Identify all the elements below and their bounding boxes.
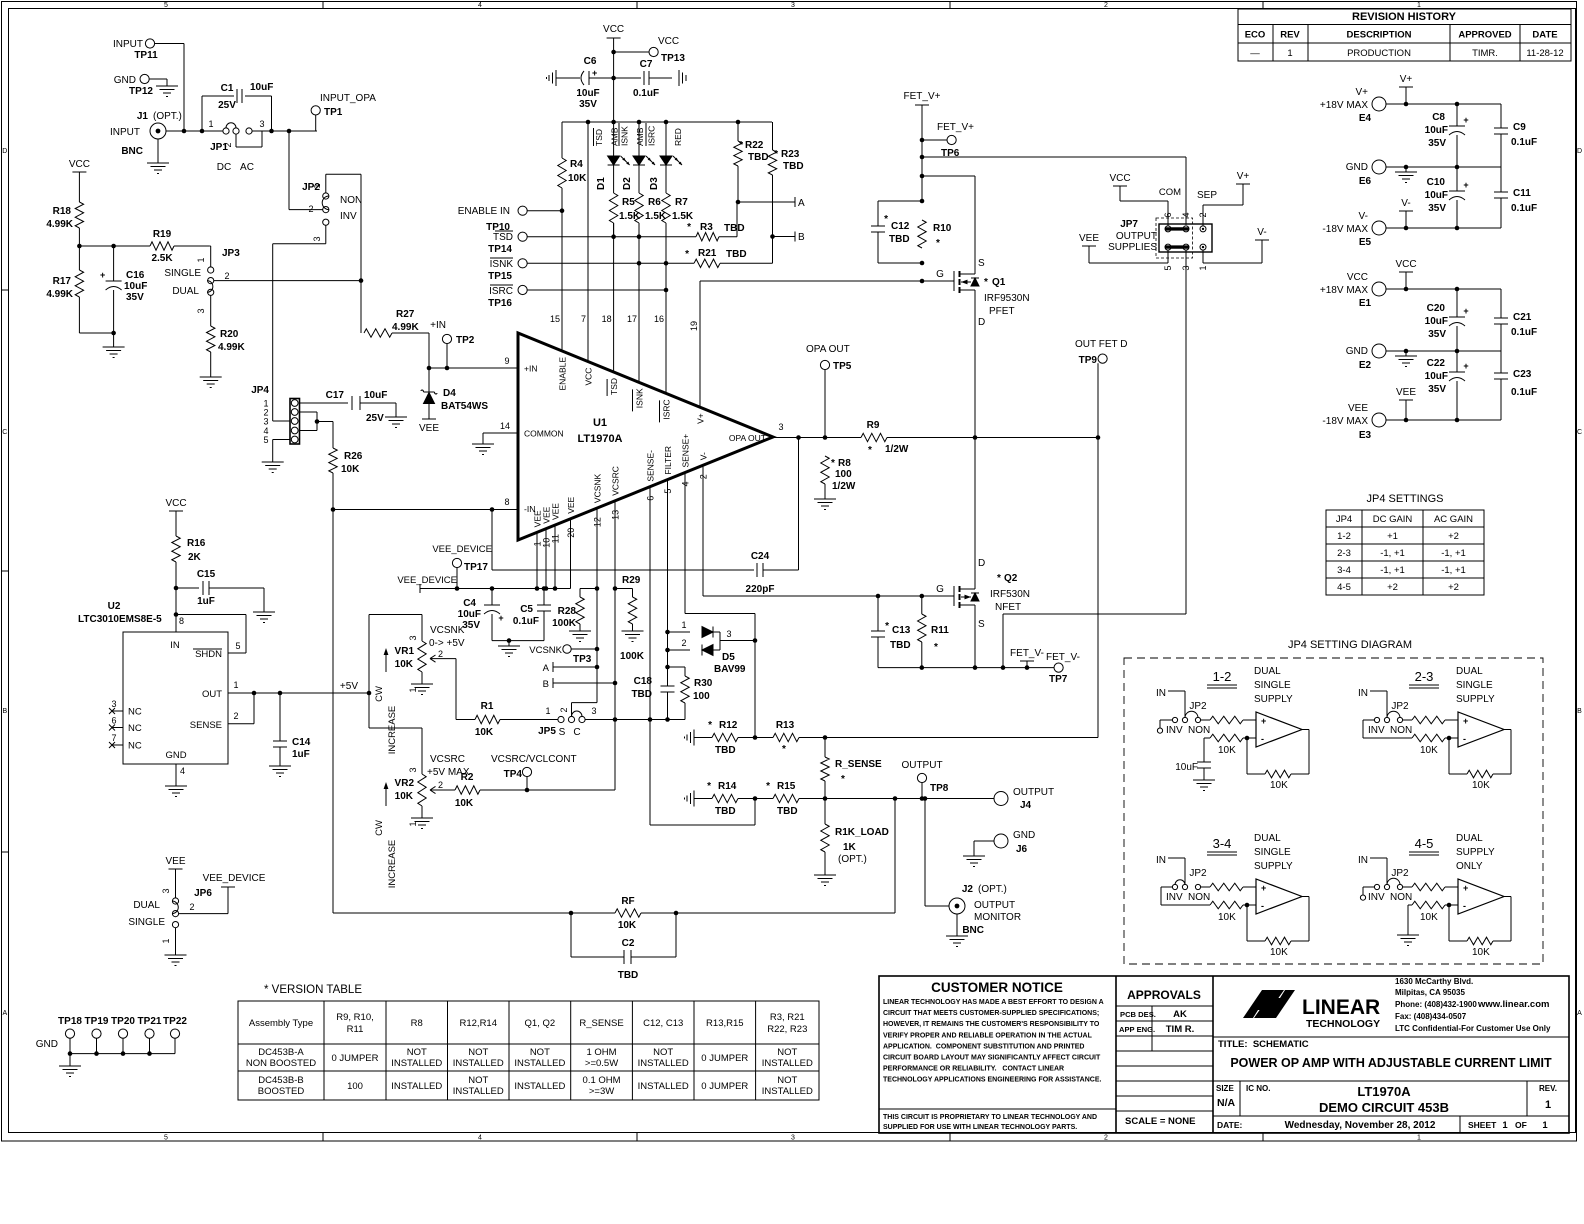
svg-text:TBD: TBD xyxy=(777,806,798,817)
svg-text:R9, R10,: R9, R10, xyxy=(336,1012,374,1023)
ground at VR2 xyxy=(421,806,423,818)
svg-text:35V: 35V xyxy=(462,620,480,631)
svg-text:10K: 10K xyxy=(395,791,414,802)
svg-text:REV.: REV. xyxy=(1539,1084,1557,1093)
svg-text:E1: E1 xyxy=(1359,298,1372,309)
diode D5 BAV99 xyxy=(668,631,691,633)
svg-text:VEE: VEE xyxy=(1396,387,1416,398)
svg-text:4: 4 xyxy=(180,766,185,776)
svg-text:NOT: NOT xyxy=(530,1047,550,1058)
svg-text:VCSRC: VCSRC xyxy=(430,754,465,765)
svg-text:R8: R8 xyxy=(838,458,851,469)
ground at C15 xyxy=(263,588,265,612)
power VEE at D4 xyxy=(422,418,436,420)
ground at C16 xyxy=(113,333,115,347)
svg-text:TP3: TP3 xyxy=(573,654,592,665)
svg-text:FET_V+: FET_V+ xyxy=(904,91,941,102)
JP4 diagram 4-5 input resistor 10K xyxy=(1403,886,1412,888)
svg-text:1: 1 xyxy=(233,680,238,690)
potentiometer VR1 10K xyxy=(368,615,370,694)
svg-text:1: 1 xyxy=(1502,1120,1508,1131)
svg-text:-18V MAX: -18V MAX xyxy=(1322,416,1368,427)
JP4 diagram 3-4 feedback resistor 10K xyxy=(1246,905,1248,941)
svg-text:19: 19 xyxy=(689,321,699,331)
svg-text:VCSNK: VCSNK xyxy=(529,645,562,656)
svg-text:TBD: TBD xyxy=(889,234,910,245)
svg-text:—: — xyxy=(1250,48,1260,59)
svg-text:IN: IN xyxy=(1358,855,1368,866)
svg-text:BAV99: BAV99 xyxy=(714,664,746,675)
wire OPA OUT row xyxy=(773,437,861,439)
svg-text:JP4: JP4 xyxy=(1336,514,1352,525)
svg-text:-1, +1: -1, +1 xyxy=(1441,565,1466,576)
svg-text:2: 2 xyxy=(681,638,686,648)
svg-text:TP17: TP17 xyxy=(464,562,488,573)
svg-text:7: 7 xyxy=(581,314,586,324)
svg-text:Phone: (408)432-1900: Phone: (408)432-1900 xyxy=(1395,1000,1477,1009)
svg-text:10uF: 10uF xyxy=(1425,371,1448,382)
LED D2 ISNK xyxy=(638,122,640,156)
net flag A xyxy=(738,201,795,203)
svg-text:R13,R15: R13,R15 xyxy=(706,1018,744,1029)
terminal E3 VEE -18V MAX xyxy=(1372,413,1386,427)
svg-text:DEMO CIRCUIT 453B: DEMO CIRCUIT 453B xyxy=(1319,1100,1449,1115)
svg-text:OPA OUT: OPA OUT xyxy=(729,433,766,443)
resistor R4 10K xyxy=(561,122,563,158)
svg-text:ISNK: ISNK xyxy=(635,388,645,408)
wire feedback to output node xyxy=(894,799,896,914)
svg-text:1: 1 xyxy=(1198,265,1208,270)
svg-text:10K: 10K xyxy=(1420,912,1438,923)
svg-text:4.99K: 4.99K xyxy=(392,322,419,333)
svg-text:*: * xyxy=(774,149,778,160)
svg-text:4.99K: 4.99K xyxy=(218,342,245,353)
svg-text:SINGLE: SINGLE xyxy=(128,917,165,928)
svg-text:1 OHM: 1 OHM xyxy=(587,1047,617,1058)
capacitor C21 0.1uF xyxy=(1500,289,1502,318)
svg-text:35V: 35V xyxy=(1428,203,1446,214)
svg-text:OUT: OUT xyxy=(202,689,222,700)
svg-text:+2: +2 xyxy=(1448,582,1459,593)
svg-text:DC GAIN: DC GAIN xyxy=(1373,514,1413,525)
svg-text:4-5: 4-5 xyxy=(1415,836,1434,851)
svg-text:C7: C7 xyxy=(640,59,653,70)
svg-text:2: 2 xyxy=(438,649,443,659)
svg-text:NOT: NOT xyxy=(407,1047,427,1058)
svg-text:100K: 100K xyxy=(620,651,645,662)
svg-text:SINGLE: SINGLE xyxy=(1254,680,1291,691)
svg-text:10uF: 10uF xyxy=(1175,762,1198,773)
svg-text:SUPPLY: SUPPLY xyxy=(1456,694,1495,705)
wire TP ground bus xyxy=(70,1053,175,1055)
svg-text:INV: INV xyxy=(340,211,357,222)
svg-text:J1: J1 xyxy=(137,111,149,122)
svg-text:C13: C13 xyxy=(892,625,911,636)
svg-text:B: B xyxy=(798,232,805,243)
svg-text:IN: IN xyxy=(170,640,180,651)
svg-text:10K: 10K xyxy=(455,798,474,809)
svg-text:JP4 SETTINGS: JP4 SETTINGS xyxy=(1366,493,1443,505)
svg-text:+: + xyxy=(592,68,597,78)
resistor R22 TBD xyxy=(737,122,739,141)
svg-text:R1: R1 xyxy=(481,701,494,712)
svg-text:S: S xyxy=(978,258,985,269)
connector J4 OUTPUT xyxy=(994,792,1008,806)
ground at J1 xyxy=(157,139,159,163)
svg-text:-18V MAX: -18V MAX xyxy=(1322,224,1368,235)
resistor R7 1.5K xyxy=(662,193,670,223)
JP4 diagram 1-2 inverting resistor 10K xyxy=(1210,734,1243,742)
svg-text:R11: R11 xyxy=(931,625,949,636)
svg-text:INCREASE: INCREASE xyxy=(387,706,398,755)
svg-text:100: 100 xyxy=(835,469,852,480)
svg-text:NOT: NOT xyxy=(468,1047,488,1058)
svg-text:R4: R4 xyxy=(570,159,583,170)
svg-text:5: 5 xyxy=(164,1135,168,1142)
svg-text:OF: OF xyxy=(1515,1120,1527,1130)
wire U1 pin12 VCSNK column xyxy=(596,508,598,703)
ground at COMMON xyxy=(472,443,494,445)
svg-text:JP7: JP7 xyxy=(1120,219,1138,230)
svg-text:4: 4 xyxy=(1181,212,1191,217)
capacitor C16 10uF 35V xyxy=(113,246,115,281)
svg-text:THIS CIRCUIT IS PROPRIETARY TO: THIS CIRCUIT IS PROPRIETARY TO LINEAR TE… xyxy=(883,1114,1097,1121)
svg-text:* VERSION TABLE: * VERSION TABLE xyxy=(264,984,362,996)
svg-text:C23: C23 xyxy=(1513,369,1532,380)
svg-text:*: * xyxy=(739,140,743,151)
svg-text:V+: V+ xyxy=(1400,74,1413,85)
svg-text:AK: AK xyxy=(1173,1009,1187,1020)
svg-text:OUT FET D: OUT FET D xyxy=(1075,339,1127,350)
svg-text:2: 2 xyxy=(223,142,233,147)
JP4 diagram 4-5 ground on inverting resistor xyxy=(1408,904,1412,906)
svg-text:C4: C4 xyxy=(463,598,476,609)
svg-text:PERFORMANCE OR RELIABILITY.: PERFORMANCE OR RELIABILITY. CONTACT LINE… xyxy=(883,1066,1064,1073)
svg-text:OPA OUT: OPA OUT xyxy=(806,344,850,355)
svg-text:0.1uF: 0.1uF xyxy=(513,616,539,627)
JP4 diagram 4-5 op amp xyxy=(1458,879,1504,914)
terminal E1 VCC +18V MAX xyxy=(1372,282,1386,296)
svg-text:ISNK: ISNK xyxy=(619,126,629,146)
JP4 diagram 4-5 inverting resistor 10K xyxy=(1412,901,1445,909)
svg-text:SCALE = NONE: SCALE = NONE xyxy=(1125,1116,1195,1127)
svg-text:D1: D1 xyxy=(596,177,607,190)
svg-text:25V: 25V xyxy=(366,413,384,424)
svg-text:Q1: Q1 xyxy=(992,277,1006,288)
wire U1 pin18 TSD column xyxy=(613,223,615,372)
svg-text:4: 4 xyxy=(478,2,482,9)
svg-text:IN: IN xyxy=(1156,855,1166,866)
capacitor C6 10uF 35V xyxy=(555,70,557,86)
wire TP1 stem xyxy=(315,115,317,131)
svg-text:3: 3 xyxy=(408,635,418,640)
resistor R30 100 xyxy=(668,666,686,668)
ground at U2 xyxy=(165,785,187,787)
svg-text:DESCRIPTION: DESCRIPTION xyxy=(1347,30,1412,41)
ground at VR1 xyxy=(421,672,423,684)
svg-text:R27: R27 xyxy=(396,309,415,320)
svg-text:0.1uF: 0.1uF xyxy=(1511,327,1537,338)
svg-text:TP15: TP15 xyxy=(488,271,512,282)
svg-text:18: 18 xyxy=(602,314,612,324)
svg-text:SEP: SEP xyxy=(1197,190,1217,201)
svg-text:2: 2 xyxy=(438,780,443,790)
svg-text:R3: R3 xyxy=(700,222,713,233)
svg-text:C21: C21 xyxy=(1513,312,1532,323)
wire U1 pin19 V+ to Q1 gate row xyxy=(699,281,701,407)
svg-text:R18: R18 xyxy=(53,206,72,217)
svg-text:TP19: TP19 xyxy=(85,1016,109,1027)
JP4 diagram 2-3 INV loop wire xyxy=(1363,719,1374,721)
svg-text:2: 2 xyxy=(189,902,194,912)
svg-text:(OPT.): (OPT.) xyxy=(978,884,1007,895)
svg-text:8: 8 xyxy=(179,616,184,626)
svg-text:SIZE: SIZE xyxy=(1216,1084,1234,1093)
svg-text:SUPPLY: SUPPLY xyxy=(1456,847,1495,858)
svg-text:0.1uF: 0.1uF xyxy=(633,88,659,99)
svg-text:4-5: 4-5 xyxy=(1337,582,1351,593)
resistor R9 1/2W xyxy=(861,433,887,441)
svg-text:5: 5 xyxy=(235,641,240,651)
svg-text:0 JUMPER: 0 JUMPER xyxy=(332,1053,379,1064)
svg-text:LINEAR TECHNOLOGY HAS MADE A B: LINEAR TECHNOLOGY HAS MADE A BEST EFFORT… xyxy=(883,999,1104,1006)
svg-text:NC: NC xyxy=(128,723,142,734)
svg-text:TSD: TSD xyxy=(493,232,513,243)
wire JP2 pin3 to JP4 pin3 xyxy=(325,225,327,243)
svg-text:C17: C17 xyxy=(326,390,345,401)
svg-text:1: 1 xyxy=(681,620,686,630)
svg-text:VEE: VEE xyxy=(419,423,439,434)
svg-text:R28: R28 xyxy=(558,606,577,617)
svg-text:C15: C15 xyxy=(197,569,216,580)
svg-text:Wednesday, November 28, 2012: Wednesday, November 28, 2012 xyxy=(1285,1120,1436,1131)
svg-text:3: 3 xyxy=(591,706,596,716)
svg-text:FET_V+: FET_V+ xyxy=(937,122,974,133)
svg-text:VCSRC: VCSRC xyxy=(611,466,621,496)
svg-text:ONLY: ONLY xyxy=(1456,861,1483,872)
svg-text:3: 3 xyxy=(408,767,418,772)
wire Q2 source to FET_V- row xyxy=(974,616,976,668)
svg-text:+: + xyxy=(1261,716,1266,726)
svg-text:TBD: TBD xyxy=(631,689,652,700)
svg-text:INSTALLED: INSTALLED xyxy=(453,1086,504,1097)
wire JP7 pin3 to FET_V- row xyxy=(1185,249,1187,614)
svg-text:TSD: TSD xyxy=(594,129,604,146)
svg-text:OUTPUT: OUTPUT xyxy=(1013,787,1054,798)
svg-text:INSTALLED: INSTALLED xyxy=(638,1058,689,1069)
wire R26 to feedback node xyxy=(332,473,334,913)
svg-text:A: A xyxy=(2,1010,7,1017)
svg-text:*: * xyxy=(782,744,786,755)
svg-text:1K: 1K xyxy=(843,842,857,853)
JP4 diagram 1-2 INV open stub xyxy=(1160,719,1172,721)
svg-text:J2: J2 xyxy=(962,884,974,895)
svg-text:1: 1 xyxy=(1542,1120,1548,1131)
wire E4 row xyxy=(1386,103,1501,105)
svg-text:NON: NON xyxy=(340,195,362,206)
svg-text:VCSNK: VCSNK xyxy=(430,625,465,636)
svg-text:R_SENSE: R_SENSE xyxy=(579,1018,623,1029)
wire U1 pin2 V- to Q2 gate row xyxy=(702,465,704,596)
svg-text:0 JUMPER: 0 JUMPER xyxy=(701,1053,748,1064)
svg-text:Q1, Q2: Q1, Q2 xyxy=(525,1018,556,1029)
svg-text:TBD: TBD xyxy=(724,223,745,234)
svg-text:+2: +2 xyxy=(1387,582,1398,593)
resistor RF 10K (feedback) xyxy=(333,912,615,914)
svg-text:B: B xyxy=(2,708,7,715)
ground at TP bus xyxy=(59,1065,81,1067)
JP4 diagram 4-5 feedback resistor 10K xyxy=(1448,905,1450,941)
svg-text:TBD: TBD xyxy=(748,152,769,163)
wire Q2 drain to output row xyxy=(974,438,976,579)
wire JP4 pin2/pin4 tie to R26 xyxy=(300,411,318,413)
svg-text:R30: R30 xyxy=(694,678,713,689)
svg-text:NOT: NOT xyxy=(653,1047,673,1058)
wire TP10 to R4 xyxy=(527,210,562,212)
svg-text:LTC Confidential-For Customer: LTC Confidential-For Customer Use Only xyxy=(1395,1024,1551,1033)
svg-text:3: 3 xyxy=(263,417,268,427)
svg-text:GND: GND xyxy=(165,750,186,761)
svg-text:JP3: JP3 xyxy=(222,248,240,259)
svg-text:POWER OP AMP WITH ADJUSTABLE C: POWER OP AMP WITH ADJUSTABLE CURRENT LIM… xyxy=(1230,1056,1552,1070)
svg-text:DUAL: DUAL xyxy=(1254,833,1281,844)
JP4 diagram 3-4 INV loop wire xyxy=(1161,886,1172,888)
wire Q1 drain to output row xyxy=(974,300,976,438)
svg-text:AC: AC xyxy=(240,162,254,173)
svg-text:*: * xyxy=(831,458,835,469)
svg-text:NOT: NOT xyxy=(777,1075,797,1086)
svg-text:TP2: TP2 xyxy=(456,335,475,346)
svg-text:SUPPLY: SUPPLY xyxy=(1254,861,1293,872)
wire feedback node to -IN xyxy=(333,509,518,511)
svg-text:JP2: JP2 xyxy=(1189,701,1207,712)
svg-text:LTC3010EMS8E-5: LTC3010EMS8E-5 xyxy=(78,614,162,625)
svg-text:FILTER: FILTER xyxy=(663,446,673,475)
svg-text:SENSE+: SENSE+ xyxy=(681,434,691,468)
wire E6 row xyxy=(1386,166,1501,168)
svg-text:V-: V- xyxy=(1257,227,1266,238)
svg-text:NON: NON xyxy=(1390,725,1412,736)
svg-text:S: S xyxy=(978,619,985,630)
test point TP6 FET_V+ xyxy=(920,138,925,143)
connector J6 GND xyxy=(994,834,1008,848)
svg-text:INSTALLED: INSTALLED xyxy=(514,1058,565,1069)
svg-text:MONITOR: MONITOR xyxy=(974,912,1021,923)
svg-text:+: + xyxy=(1463,306,1468,316)
svg-text:VCC: VCC xyxy=(603,24,624,35)
svg-text:R14: R14 xyxy=(718,781,737,792)
svg-text:INSTALLED: INSTALLED xyxy=(762,1058,813,1069)
svg-text:RED: RED xyxy=(673,128,683,146)
svg-text:10K: 10K xyxy=(618,920,637,931)
svg-text:E2: E2 xyxy=(1359,360,1372,371)
wire Q1 gate node xyxy=(920,279,925,284)
svg-text:10uF: 10uF xyxy=(124,281,147,292)
svg-text:(OPT.): (OPT.) xyxy=(153,111,182,122)
svg-text:TP13: TP13 xyxy=(661,53,685,64)
wire E2 row xyxy=(1386,350,1501,352)
svg-text:C1: C1 xyxy=(221,83,234,94)
wire TSD row xyxy=(527,236,696,238)
svg-text:VR2: VR2 xyxy=(395,778,415,789)
svg-text:R21: R21 xyxy=(698,248,717,259)
resistor R10 xyxy=(918,220,926,248)
svg-text:PRODUCTION: PRODUCTION xyxy=(1347,48,1411,59)
svg-text:R1K_LOAD: R1K_LOAD xyxy=(835,827,889,838)
ground at R29 xyxy=(632,624,634,631)
svg-text:INPUT: INPUT xyxy=(110,127,140,138)
svg-text:3: 3 xyxy=(259,119,264,129)
wire JP3 pin3 to R20 xyxy=(210,295,212,326)
svg-text:1uF: 1uF xyxy=(197,596,215,607)
svg-text:0.1uF: 0.1uF xyxy=(1511,137,1537,148)
wire U1 COMMON to ground xyxy=(483,432,518,434)
title rows xyxy=(1213,1036,1569,1038)
svg-text:C8: C8 xyxy=(1432,112,1445,123)
svg-text:4.99K: 4.99K xyxy=(46,289,73,300)
svg-text:TP12: TP12 xyxy=(129,86,153,97)
svg-text:OUTPUT: OUTPUT xyxy=(1116,231,1157,242)
svg-text:U2: U2 xyxy=(108,601,121,612)
capacitor C4 10uF 35V xyxy=(491,589,493,606)
svg-text:R29: R29 xyxy=(622,575,641,586)
revision history table xyxy=(1238,9,1571,61)
wire U1 VEE pins to VEE_DEVICE bus xyxy=(536,532,538,588)
svg-text:GND: GND xyxy=(1013,830,1035,841)
svg-text:TP4: TP4 xyxy=(504,769,523,780)
svg-text:GND: GND xyxy=(1346,162,1368,173)
capacitor C10 10uF 35V xyxy=(1456,167,1458,191)
svg-text:S: S xyxy=(559,727,566,738)
resistor R16 2K xyxy=(172,536,180,562)
svg-text:1: 1 xyxy=(196,257,206,262)
capacitor C5 0.1uF xyxy=(543,589,545,606)
JP4 diagram 1-2 feedback resistor 10K xyxy=(1246,738,1248,774)
svg-text:6: 6 xyxy=(111,716,116,726)
wire J1 to JP1 xyxy=(166,130,223,132)
svg-text:INCREASE: INCREASE xyxy=(387,840,398,889)
svg-text:9: 9 xyxy=(504,356,509,366)
svg-text:INV: INV xyxy=(1368,892,1385,903)
svg-text:A: A xyxy=(543,663,550,674)
approvals box xyxy=(1212,976,1214,1133)
svg-text:CIRCUIT THAT MEETS CUSTOMER-SU: CIRCUIT THAT MEETS CUSTOMER-SUPPLIED SPE… xyxy=(883,1010,1099,1017)
JP4 diagram 1-2 op amp xyxy=(1256,712,1302,747)
wire U1 pin4 SENSE+ to D5 node xyxy=(684,473,686,614)
svg-text:TP21: TP21 xyxy=(138,1016,162,1027)
svg-text:-: - xyxy=(1463,901,1466,911)
svg-text:VEE: VEE xyxy=(1348,403,1368,414)
svg-text:SUPPLY: SUPPLY xyxy=(1254,694,1293,705)
resistor R18 4.99K xyxy=(75,202,83,228)
wire U2 GND pin xyxy=(175,764,177,786)
svg-text:FET_V-: FET_V- xyxy=(1010,648,1044,659)
svg-text:10uF: 10uF xyxy=(364,390,387,401)
wire D5 node to R12/R13 junction xyxy=(754,641,756,738)
svg-text:SENSE-: SENSE- xyxy=(646,450,656,482)
ground at R8 xyxy=(814,498,836,500)
diode D4 BAT54WS xyxy=(428,368,430,392)
wire TP9 column to R13 row xyxy=(1097,363,1099,737)
svg-text:HOWEVER, IT REMAINS THE CUSTOM: HOWEVER, IT REMAINS THE CUSTOMER'S RESPO… xyxy=(883,1021,1100,1028)
svg-text:2: 2 xyxy=(1104,2,1108,9)
capacitor C17 10uF 25V xyxy=(351,396,353,410)
net flag B xyxy=(773,236,796,238)
svg-text:2-3: 2-3 xyxy=(1415,669,1434,684)
wire JP5 pin3 to VCSRC/SENSE-/FILTER row xyxy=(585,719,667,721)
svg-text:JP4: JP4 xyxy=(251,385,269,396)
ground at R14 xyxy=(693,791,695,807)
